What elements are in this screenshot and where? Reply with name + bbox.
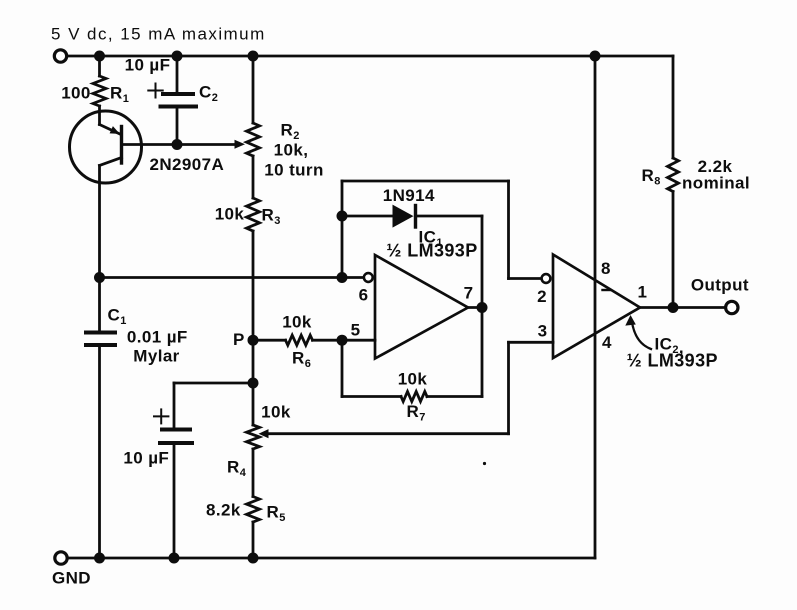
svg-text:10k: 10k	[282, 313, 312, 332]
svg-text:½ LM393P: ½ LM393P	[386, 241, 477, 261]
svg-text:5 V dc, 15 mA maximum: 5 V dc, 15 mA maximum	[51, 25, 266, 44]
svg-text:nominal: nominal	[682, 174, 750, 193]
svg-text:R2: R2	[281, 121, 300, 143]
svg-text:1: 1	[637, 283, 647, 302]
svg-text:10k: 10k	[261, 403, 291, 422]
svg-text:7: 7	[464, 284, 474, 303]
svg-text:2N2907A: 2N2907A	[150, 155, 225, 174]
svg-text:8: 8	[601, 259, 611, 278]
svg-text:C1: C1	[108, 306, 127, 328]
svg-text:R3: R3	[262, 206, 281, 228]
svg-text:5: 5	[351, 321, 361, 340]
svg-text:2: 2	[537, 287, 547, 306]
svg-text:10k: 10k	[398, 370, 428, 389]
svg-text:10k: 10k	[215, 205, 245, 224]
svg-text:Mylar: Mylar	[133, 347, 179, 366]
svg-text:10 µF: 10 µF	[123, 449, 169, 468]
svg-text:R4: R4	[227, 458, 247, 480]
svg-text:10 turn: 10 turn	[264, 161, 323, 180]
svg-text:½ LM393P: ½ LM393P	[627, 351, 718, 371]
svg-text:6: 6	[359, 286, 369, 305]
svg-text:0.01 µF: 0.01 µF	[127, 328, 188, 347]
svg-text:3: 3	[538, 321, 548, 340]
svg-text:R8: R8	[642, 166, 661, 188]
svg-text:R6: R6	[292, 349, 311, 371]
svg-text:8.2k: 8.2k	[206, 501, 241, 520]
svg-text:100: 100	[61, 84, 91, 103]
svg-text:10 µF: 10 µF	[125, 56, 171, 75]
svg-text:GND: GND	[52, 569, 91, 588]
svg-text:C2: C2	[199, 83, 218, 105]
svg-text:R1: R1	[110, 84, 129, 106]
svg-text:10k,: 10k,	[274, 141, 309, 160]
svg-text:R5: R5	[267, 503, 286, 525]
svg-text:P: P	[233, 330, 245, 349]
svg-text:R7: R7	[407, 402, 426, 424]
svg-text:4: 4	[602, 333, 612, 352]
svg-text:1N914: 1N914	[383, 186, 435, 205]
svg-text:Output: Output	[691, 276, 749, 295]
